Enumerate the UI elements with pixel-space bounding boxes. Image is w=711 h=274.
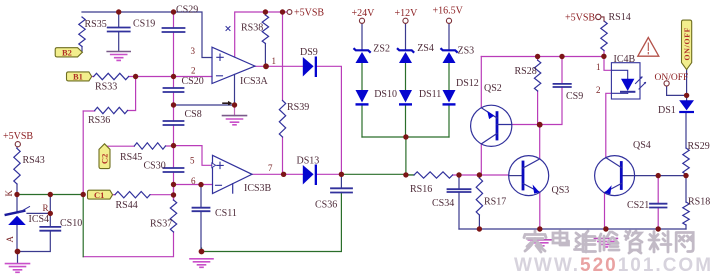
- svg-text:RS28: RS28: [515, 66, 537, 77]
- capacitor CS36: [331, 188, 352, 192]
- wire ON/OFF terminal stub: [667, 86, 687, 96]
- junction rail at pin2 row: [171, 74, 176, 79]
- net flag C1: [88, 190, 113, 199]
- wire RS28 top lead: [537, 57, 539, 61]
- wire RS38 bottom to output node: [264, 44, 266, 67]
- ICS3B power stub: [232, 184, 234, 193]
- terminal circle +16.5V: [446, 18, 451, 23]
- svg-text:A: A: [5, 236, 15, 243]
- op-amp ICS3A: [212, 27, 255, 84]
- capacitor CS30: [164, 168, 184, 172]
- svg-text:6: 6: [191, 176, 196, 186]
- watermark char 3: [575, 231, 596, 252]
- zener ZS2: [356, 52, 369, 63]
- junction RS17 top QS2 collector: [477, 172, 482, 177]
- resistor RS16: [414, 172, 453, 178]
- junction pin6 at CS11: [198, 182, 203, 187]
- svg-text:ON/OFF: ON/OFF: [655, 73, 689, 83]
- resistor RS36: [95, 107, 128, 113]
- net flag B1: [67, 72, 92, 81]
- wire K node down to bottom jog: [82, 195, 84, 257]
- svg-text:RS16: RS16: [410, 184, 432, 195]
- zener ZS2 bar: [354, 49, 370, 52]
- svg-text:RS38: RS38: [241, 23, 263, 34]
- wire ground stub bottom-left: [17, 252, 19, 264]
- ground under QS3 emitter: [528, 239, 551, 241]
- wire CS19 bottom lead to ground: [118, 32, 120, 52]
- junction R reference node: [48, 211, 53, 216]
- junction K node at RS43: [14, 192, 19, 197]
- ground under CS11: [190, 258, 213, 260]
- wire RS37 bottom to bottom U-path: [83, 232, 173, 257]
- wire ON/OFF flag down to DS1: [686, 70, 688, 101]
- wire RS16 right to QS3 base row: [453, 174, 509, 176]
- transistor QS4: [595, 156, 635, 196]
- junction CS34 top: [456, 172, 461, 177]
- svg-text:RS18: RS18: [688, 197, 710, 208]
- watermark char 1: [524, 231, 546, 252]
- watermark char 7: [676, 233, 693, 252]
- svg-text:CS20: CS20: [182, 76, 204, 87]
- svg-text:RS29: RS29: [688, 141, 710, 152]
- junction rail at pin6 row: [171, 182, 176, 187]
- watermark char 5: [625, 231, 642, 253]
- resistor RS45: [134, 143, 165, 149]
- junction pin4 ground node: [232, 102, 237, 107]
- svg-text:DS10: DS10: [374, 89, 397, 100]
- resistor RS18: [683, 202, 689, 225]
- wire RS28 bottom lead: [537, 91, 539, 125]
- wire RS17 leads: [478, 175, 480, 229]
- wire DS13 cathode to CS36 node: [317, 173, 341, 175]
- wire CS9 top lead: [561, 57, 563, 84]
- net flag C2: [99, 144, 110, 169]
- wire C2 row to RS45 to rail: [104, 145, 173, 147]
- wire +24V terminal stub: [361, 23, 363, 50]
- ground bottom-left under ICS4: [6, 263, 30, 265]
- diode DS10: [356, 90, 369, 103]
- svg-text:RS39: RS39: [287, 102, 309, 113]
- wire QS2 emitter vertical: [480, 57, 482, 108]
- svg-text:RS36: RS36: [88, 115, 110, 126]
- junction rail at RS44 row: [171, 192, 176, 197]
- svg-text:C1: C1: [94, 190, 104, 200]
- svg-text:ICS3A: ICS3A: [240, 76, 269, 87]
- capacitor CS9: [554, 84, 571, 87]
- resistor RS35: [79, 17, 85, 47]
- wire pin2 from rail to op-amp: [174, 76, 213, 78]
- junction CS11 ground node: [199, 249, 205, 255]
- junction anode ground node: [15, 249, 21, 255]
- svg-text:5: 5: [190, 156, 195, 166]
- svg-text:+5VSB: +5VSB: [294, 8, 324, 19]
- svg-text:RS43: RS43: [23, 155, 45, 166]
- svg-text:RS33: RS33: [95, 82, 117, 93]
- junction top rail at vertical rail: [171, 9, 176, 14]
- svg-text:+16.5V: +16.5V: [433, 6, 464, 17]
- svg-text:7: 7: [268, 163, 273, 173]
- wire CS34 leads: [458, 175, 460, 229]
- diode DS11: [399, 90, 412, 103]
- svg-text:2: 2: [191, 66, 196, 76]
- wire K row green: [17, 194, 83, 196]
- wire CS36 bottom green: [202, 193, 342, 252]
- svg-text:CS19: CS19: [133, 19, 155, 30]
- wire diode bus columns down: [362, 106, 449, 137]
- junction pin7 at RS39: [281, 172, 286, 177]
- wire RS35 bottom lead to B2: [81, 47, 83, 53]
- svg-text:ICS3B: ICS3B: [244, 183, 272, 194]
- svg-text:R: R: [43, 203, 49, 213]
- terminal circle ON/OFF: [664, 81, 669, 86]
- junction emitter rail at CS9: [559, 54, 564, 59]
- wire RS36 left end down to K row: [82, 111, 84, 195]
- wire ICS3A output row to DS9: [255, 65, 303, 67]
- svg-text:CS8: CS8: [185, 109, 202, 120]
- svg-text:DS9: DS9: [300, 47, 318, 58]
- wire CS21 leads: [657, 176, 659, 229]
- svg-text:DS1: DS1: [658, 105, 676, 116]
- svg-text:ICS4: ICS4: [29, 214, 50, 225]
- wire RS44 right lead to rail: [150, 185, 174, 201]
- resistor RS44: [115, 192, 150, 198]
- wire pin7 row: tip to DS13: [252, 173, 303, 175]
- capacitor CS20: [164, 88, 184, 92]
- ground at ICS3A pin4: [234, 105, 236, 116]
- wire RS18 bottom lead: [685, 225, 687, 229]
- wire DS1 bottom lead: [685, 113, 687, 148]
- resistor RS17: [476, 178, 482, 215]
- wire ICS4 cathode lead: [16, 195, 18, 213]
- svg-text:C2: C2: [100, 154, 110, 164]
- wire RS39 bottom to pin7 row: [282, 137, 284, 174]
- diode DS9: [303, 57, 314, 77]
- junction rail at RS45 row: [171, 143, 176, 148]
- svg-text:+5VSB: +5VSB: [3, 131, 33, 142]
- resistor RS33: [94, 73, 129, 79]
- svg-text:CS11: CS11: [215, 208, 237, 219]
- svg-text:K: K: [4, 190, 14, 197]
- junction bus at CS21: [656, 226, 661, 231]
- junction K node at RS36 branch: [81, 192, 86, 197]
- wire zener ZS4 to DS11: [405, 64, 407, 91]
- wire CS10 top lead: [49, 195, 51, 227]
- diode DS13: [303, 165, 314, 185]
- zener ZS3 bar: [441, 49, 457, 52]
- svg-text:QS2: QS2: [484, 83, 502, 94]
- resistor RS14: [601, 21, 607, 51]
- junction bus at RS17: [477, 226, 482, 231]
- svg-text:RS37: RS37: [150, 219, 172, 230]
- optocoupler IC4B: [611, 63, 646, 99]
- wire pin5 jog from rail: [174, 146, 212, 166]
- junction QS4 base at RS29: [683, 173, 688, 178]
- junction top rail at CS19: [116, 9, 121, 14]
- terminal circle +5VSB top: [287, 10, 292, 15]
- junction diode bus: [403, 134, 408, 139]
- diode DS12: [443, 90, 456, 103]
- svg-text:B2: B2: [62, 48, 72, 58]
- svg-text:ZS2: ZS2: [373, 44, 390, 55]
- svg-text:DS11: DS11: [419, 89, 441, 100]
- svg-text:1: 1: [272, 56, 277, 66]
- wire QS2 emitter rail y56.5: [481, 56, 603, 58]
- transistor QS3: [509, 156, 549, 196]
- resistor RS43: [14, 148, 20, 184]
- wire CS11 leads: [200, 185, 202, 252]
- wire pin6 from rail to op-amp: [174, 184, 213, 186]
- wire RS43 bottom to K row: [16, 184, 18, 195]
- op-amp ICS3B: [212, 155, 252, 193]
- junction ICS3A output pin1: [263, 63, 269, 69]
- svg-text:QS4: QS4: [633, 140, 651, 151]
- wire ground bus y229: [459, 228, 686, 230]
- svg-text:3: 3: [191, 46, 196, 56]
- junction K node at CS10: [48, 192, 53, 197]
- diode DS1: [679, 100, 694, 110]
- wire RS38 top lead: [264, 12, 266, 15]
- regulator ICS4: [6, 207, 30, 225]
- svg-text:DS12: DS12: [456, 78, 479, 89]
- transistor QS2: [471, 105, 512, 146]
- wire RS33 node down to RS36 right end: [128, 77, 136, 111]
- capacitor CS11: [193, 208, 210, 212]
- terminal circle +24V: [359, 18, 364, 23]
- wire bus to RS16: [406, 137, 414, 175]
- zener ZS3: [443, 52, 456, 63]
- wire QS3 emitter down to ground bus: [539, 192, 541, 229]
- wire +12V terminal stub: [405, 23, 407, 50]
- resistor RS39: [279, 101, 285, 138]
- wire QS4 emitter down to ground bus: [604, 193, 606, 229]
- svg-text:CS10: CS10: [60, 218, 82, 229]
- wire QS3 collector up to base node: [539, 125, 541, 159]
- wire CS19 top lead: [118, 12, 120, 28]
- wire C1 flag tip to RS44: [112, 194, 115, 196]
- wire CS36 top lead: [340, 174, 342, 188]
- junction bus at QS4 emitter: [603, 226, 608, 231]
- resistor RS37: [170, 200, 176, 232]
- junction emitter rail at RS14: [601, 54, 606, 59]
- svg-text:DS13: DS13: [297, 156, 320, 167]
- svg-text:+24V: +24V: [352, 8, 376, 19]
- wire QS2 collector down to RS17 node: [480, 144, 482, 175]
- svg-text:QS3: QS3: [552, 185, 570, 196]
- wire DS13 node to RS16 node green: [341, 173, 406, 175]
- svg-text:ZS3: ZS3: [458, 45, 475, 56]
- capacitor CS10: [40, 227, 60, 231]
- junction emitter rail at RS28: [535, 54, 540, 59]
- svg-text:CS36: CS36: [315, 200, 337, 211]
- wire +5VSB down crossing to RS39: [282, 12, 284, 101]
- wire RS14 bottom to IC4B pin1: [604, 51, 611, 71]
- svg-text:RS17: RS17: [484, 197, 506, 208]
- resistor RS38: [262, 15, 268, 44]
- wire ICS4 anode lead down: [16, 225, 18, 253]
- wire top-left navy rail to pin3: [82, 12, 212, 58]
- svg-text:ZS4: ZS4: [417, 43, 434, 54]
- svg-text:+12V: +12V: [395, 8, 419, 19]
- capacitor CS8: [164, 121, 184, 125]
- wire CS11 ground node: [201, 248, 203, 252]
- wire QS4 base row to CS21 node: [621, 175, 686, 177]
- wire diode green bus: [362, 136, 449, 138]
- svg-text:CS21: CS21: [627, 200, 649, 211]
- wire CS10 bottom lead and link to ground: [18, 231, 51, 252]
- svg-text:RS14: RS14: [609, 12, 631, 23]
- junction RS16 left node: [403, 172, 408, 177]
- watermark char 6: [649, 232, 671, 253]
- svg-text:CS9: CS9: [566, 91, 583, 102]
- svg-text:2: 2: [596, 85, 601, 95]
- svg-text:CS34: CS34: [432, 198, 454, 209]
- svg-text:1: 1: [596, 62, 601, 72]
- wire +16.5V terminal stub: [448, 23, 450, 50]
- svg-text:RS44: RS44: [116, 200, 138, 211]
- watermark char 4: [599, 232, 619, 251]
- junction +5VSB at RS38: [263, 9, 268, 14]
- wire zener ZS3 to DS12: [448, 64, 450, 91]
- junction RS33 node: [133, 74, 138, 79]
- zener ZS4: [399, 52, 412, 63]
- svg-text:CS29: CS29: [176, 5, 198, 16]
- wire RS36 left lead: [83, 110, 95, 112]
- svg-text:IC4B: IC4B: [614, 54, 636, 65]
- wire zener ZS2 to DS10: [361, 64, 363, 91]
- wire ICS4 ref stub: [27, 212, 50, 214]
- ground under CS19: [107, 51, 130, 53]
- pin 5 input marker: [212, 163, 216, 168]
- capacitor CS34: [448, 189, 471, 192]
- zener ZS4 bar: [398, 49, 414, 52]
- wire RS43 top lead: [16, 147, 18, 149]
- wire IC4B pin2 down to QS4 collector: [606, 93, 612, 157]
- net flag B2: [55, 48, 82, 57]
- junction bus at QS3 emitter: [537, 226, 542, 231]
- resistor RS29: [683, 148, 689, 174]
- warning triangle: [638, 38, 659, 57]
- terminal circle +12V: [403, 18, 408, 23]
- svg-text:CS30: CS30: [144, 161, 166, 172]
- junction QS2 base node: [537, 122, 543, 128]
- capacitor CS29: [163, 28, 185, 32]
- watermark char 2: [553, 231, 569, 245]
- svg-text:RS35: RS35: [85, 19, 107, 30]
- wire top +5VSB rail to op-amp V+: [235, 12, 288, 57]
- wire QS3 base lead: [509, 175, 523, 177]
- terminal circle +5VSB left: [15, 142, 20, 147]
- junction +5VSB at RS39: [280, 9, 285, 14]
- capacitor CS19: [108, 28, 130, 32]
- wire RS29 to RS18 junction column: [685, 174, 687, 202]
- capacitor CS21: [650, 204, 667, 208]
- wire pin4 ground row: [174, 75, 235, 106]
- wire DS9 cathode right then down to pin7 row: [317, 66, 341, 174]
- svg-text:B1: B1: [73, 72, 83, 82]
- junction rail at ground row: [171, 102, 176, 107]
- svg-text:WWW.520101.COM: WWW.520101.COM: [514, 255, 711, 274]
- ground under QS4 emitter: [594, 237, 617, 239]
- svg-text:ON/OFF: ON/OFF: [682, 27, 691, 61]
- svg-text:+5VSB: +5VSB: [565, 13, 595, 24]
- junction pin7 at CS36: [339, 172, 344, 177]
- net flag ON/OFF: [682, 20, 692, 70]
- resistor RS28: [534, 60, 540, 91]
- junction QS4 base at CS21: [656, 173, 661, 178]
- wire QS2 base row to CS9 corner: [512, 87, 562, 125]
- wire rail x=173.5 segments between caps: [173, 12, 175, 200]
- wire B1 row: flag to RS33 to rail: [92, 76, 174, 78]
- terminal circle +5VSB right with hook: [596, 14, 601, 19]
- no-ERC cross on ICS3A: [226, 27, 230, 31]
- junction ON/OFF node: [684, 93, 689, 98]
- svg-text:RS45: RS45: [120, 152, 142, 163]
